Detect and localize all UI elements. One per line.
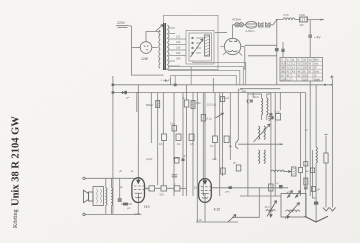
label 432 [214, 208, 221, 212]
cap near x313 [312, 187, 316, 192]
blob x270.9 [269, 113, 272, 116]
variometer arrow through IF2 [254, 124, 271, 142]
plus mark right rail [330, 75, 333, 78]
label under grid line [225, 191, 231, 194]
tube 2 envelope [199, 179, 212, 203]
wire drop x215 [214, 93, 216, 161]
caps right of tube1 [149, 186, 155, 191]
wire drop x163 [162, 93, 164, 186]
box1 frame right edge [232, 188, 259, 218]
arrow at right of line [280, 143, 283, 145]
wire drop x186 with cap 1u [186, 85, 188, 100]
wire drop x157.7 with resistor 50k [157, 93, 159, 186]
label 220V mains [117, 21, 126, 25]
wire choke to resistor [295, 19, 300, 21]
speaker bottom wire [85, 213, 141, 215]
cap on x219.7 [224, 136, 229, 143]
tube 1 grid dashes [134, 186, 144, 190]
label 1u [182, 97, 185, 100]
label J above tube1 [131, 169, 134, 173]
label at bus mid [242, 89, 247, 93]
IF coil pair 2 left [259, 126, 260, 140]
labels [145, 184, 176, 197]
electrolytic cup 1 [259, 22, 264, 27]
squiggle above blob2 [276, 182, 279, 185]
wire into rectifier left [215, 31, 227, 33]
tube 2 heater [202, 197, 208, 198]
output transformer primary [106, 188, 107, 206]
output transformer secondary [112, 188, 113, 206]
wire drop x238 [237, 89, 239, 140]
wire mains to lamp branch [129, 26, 164, 75]
variometer 1 tail blob [269, 214, 273, 218]
label 0.1/1k [275, 111, 280, 114]
speaker terminal bottom [83, 213, 85, 215]
IF coil pair 3 left [259, 150, 260, 164]
wire drop x203 with cap [202, 93, 204, 197]
cap x176 above tubes [175, 158, 180, 164]
blob cap x316.1 [314, 202, 318, 205]
lower bus y196 [240, 195, 281, 197]
tube 1 anode arrow [137, 178, 140, 183]
primary arrow [156, 25, 163, 32]
wire drop x219.7 [219, 93, 221, 197]
cap 0.1 on x203 [201, 115, 206, 122]
field winding zigzag [96, 189, 102, 204]
cap blob x305.7 [304, 187, 308, 190]
transformer primary winding [159, 30, 160, 68]
field choke oval [246, 21, 257, 28]
cap bars on x270.9 [268, 117, 273, 119]
wire x316.1 to chassis [315, 85, 317, 222]
transformer core [164, 23, 166, 70]
mains terminal lines [116, 26, 129, 28]
label uu [233, 162, 236, 165]
tube 1 heater [135, 197, 141, 198]
label AT50A [232, 18, 241, 22]
arrow head right [321, 19, 325, 21]
wire x300 down [300, 93, 302, 197]
tube 2 anode arrow [203, 179, 206, 184]
speaker top wire [85, 177, 135, 179]
squiggle vertical x170.5 [170, 77, 172, 85]
label 1.18 [197, 219, 202, 222]
wire drop x222 [222, 93, 224, 177]
wire drop x141 tube1 anode [137, 85, 139, 178]
label 10 left tube2 [194, 186, 198, 190]
wire nest from selector to bus [193, 61, 246, 85]
HT series resistor [300, 17, 308, 22]
tube 1 cathode [135, 193, 143, 202]
coil stack x316 [316, 147, 317, 163]
transformer enclosure box [164, 16, 219, 70]
label a below plus [126, 96, 131, 100]
wire x283 to table [282, 42, 284, 58]
variometer 1 arrow [267, 201, 277, 217]
dial lamp 12W [140, 42, 152, 54]
label above bus [167, 79, 171, 83]
rectifier pin right [239, 47, 245, 56]
table micro text [281, 60, 320, 82]
rectifier top lead [233, 25, 235, 39]
cap row tub 1 [162, 134, 167, 141]
resistor above y196 [269, 184, 274, 191]
label 0.05 [284, 13, 290, 17]
junction dot upper bus x325 [324, 84, 326, 86]
tap voltage labels [176, 35, 181, 61]
caps right of detector [299, 168, 303, 173]
cap near x222 up [220, 97, 224, 102]
wire blob [121, 203, 132, 205]
cap x222 low [221, 168, 226, 174]
IF coil pair 2 right [264, 126, 265, 140]
label 1k [196, 102, 201, 105]
wire x312.5 [313, 150, 317, 198]
tone coil [286, 210, 300, 212]
blob on grid line [229, 186, 232, 189]
wire resistor to arrow [308, 19, 325, 21]
cap on x312.5 [311, 168, 315, 173]
cap x238 low [236, 165, 241, 171]
speaker magnet block [89, 192, 94, 201]
cap 1u [184, 100, 189, 107]
switch contact 1 [288, 195, 290, 197]
label [170, 123, 175, 126]
squiggle label [160, 78, 165, 82]
cap blob 2 [308, 35, 312, 38]
vertical x119.7 with cap [119, 178, 121, 198]
wire drop x183 [182, 93, 184, 197]
connector blade [236, 140, 239, 149]
horizontal line through IF to arrow [238, 143, 283, 145]
wire drop x197 [196, 93, 198, 223]
junction dot rail main [112, 91, 115, 93]
resistor 50k [156, 101, 160, 108]
wire tube1 to caps [145, 187, 187, 189]
tube 2 cathode [201, 194, 209, 203]
variometer coil 1 [266, 210, 276, 211]
speaker terminal top [83, 177, 85, 179]
voltage table [280, 58, 323, 82]
trimmer C top [247, 99, 249, 104]
junction [138, 92, 140, 94]
arrow mid (AVC) [216, 113, 224, 118]
tube2 bottom lead + bus [196, 202, 238, 222]
label Y13 [144, 205, 150, 209]
label top left IF [240, 87, 244, 91]
wire nest 3 [168, 71, 240, 85]
vertical x113 chassis rail [112, 76, 114, 214]
wire x275.2 [274, 93, 276, 197]
wire drop x151.3 [150, 93, 152, 144]
label uF small [183, 155, 186, 158]
rectifier pin left [220, 47, 226, 56]
label 50k [146, 103, 153, 107]
bottom right tone box [281, 194, 306, 218]
bus line main left [113, 92, 306, 94]
label uF top [119, 170, 122, 173]
blob x283 [281, 49, 284, 52]
plus tick left of bus [164, 79, 167, 82]
right tall rail [332, 79, 334, 208]
cap blob [275, 48, 279, 51]
bus end junction dot [331, 84, 333, 86]
wire nest 4 [170, 76, 236, 85]
small arrow near IF [269, 117, 274, 121]
label uF [286, 192, 291, 195]
title text Körting Unix 38 R 2104 GW [11, 116, 22, 228]
IF transformer top frame line [247, 93, 249, 197]
IF coil pair 1 right [267, 98, 268, 115]
wire IF right verticals [270, 93, 272, 216]
wire rectifier right drop [244, 47, 246, 71]
wide chassis V [305, 216, 328, 222]
switch wires to contacts [196, 38, 205, 53]
tube 2 grid dashes [201, 187, 211, 191]
label A-500 [246, 29, 256, 33]
wire lamp right to primary [152, 47, 158, 49]
bottom-right coil horizontal [271, 170, 285, 172]
cap mid x174 [173, 93, 175, 197]
wire drop x211 tube2 anode [204, 93, 206, 179]
wire lamp left [132, 47, 141, 49]
fuse circle 2 [239, 23, 243, 27]
bus line right mid [240, 88, 280, 90]
HF choke on HT line [283, 18, 295, 20]
wire drop x136.8 [136, 93, 138, 113]
junction blob bus [174, 83, 177, 86]
tub x278 [276, 114, 281, 121]
label 5mk [254, 96, 259, 99]
wire to HT junction [270, 20, 283, 25]
labels under caps row [146, 142, 232, 161]
selector arm [191, 39, 204, 57]
cap bars on x174 [172, 175, 177, 177]
blob x182 [182, 159, 185, 162]
dropper cap branch [276, 20, 278, 85]
arrow terminal x326 [323, 208, 329, 212]
wire nest 2 [168, 67, 243, 85]
wire drop x193 with resistor [192, 93, 194, 197]
wire fuse to choke [243, 24, 245, 26]
vertical link w4 to bus [174, 76, 176, 85]
label um [127, 207, 131, 210]
IF wire x253.2 [252, 93, 254, 99]
mains switch arrow bottom [228, 215, 236, 223]
cap branch after resistor [309, 20, 311, 196]
wire drop x230 [229, 93, 231, 161]
wire x326 [325, 136, 327, 208]
tone arrow [285, 203, 300, 219]
tap wires [169, 28, 186, 66]
wire drop x213.3 [212, 78, 214, 93]
speaker cone [83, 190, 88, 202]
speaker field box [93, 187, 104, 206]
blob 2 on grid line [279, 185, 283, 188]
arrow terminal x332.5 [329, 208, 335, 212]
wire x280.3 [279, 93, 281, 111]
junction dot rail upper [112, 84, 115, 86]
label +B [314, 36, 321, 40]
cap blob left of tube1 [123, 203, 128, 206]
dropping resistor (hatched) [205, 35, 210, 56]
cap row tub 4 [213, 136, 218, 143]
IF1 connecting wires [248, 94, 271, 120]
rectifier anode marks [230, 40, 238, 42]
detector box [292, 167, 297, 176]
wire second link [248, 55, 277, 57]
IF coil pair 1 left [262, 98, 263, 115]
junction blob main bus [124, 91, 127, 94]
junction dot [276, 19, 277, 20]
cap row tub 3 [189, 134, 194, 141]
plus mark on main bus [121, 91, 124, 94]
arrow into detector [284, 171, 292, 173]
label J right [305, 128, 309, 132]
fuse circle 1 [235, 23, 239, 27]
selector contacts [192, 37, 193, 38]
transformer secondary winding with taps [168, 25, 170, 69]
trimmer cap mark [250, 100, 254, 103]
wire nest corner [190, 66, 192, 84]
cap on x326 [324, 153, 328, 163]
wire rectifier to dropper [245, 44, 277, 46]
electrolytic cup 2 [266, 22, 271, 27]
cap on x305.7 [304, 162, 308, 167]
transformer wires [106, 178, 112, 214]
switch contact 2 [296, 195, 298, 197]
cap row tub 2 [176, 134, 181, 141]
label 0.007 [120, 186, 141, 216]
cap 0.1 on x174 [172, 126, 177, 132]
switch sub-box outer [186, 31, 214, 65]
rectifier cathode arcs [228, 51, 238, 52]
switch sub-box inner [189, 33, 212, 61]
label [207, 118, 212, 121]
wire x305.7 [305, 93, 307, 217]
grid line horizontal [212, 187, 289, 189]
resistor on x305.7 [304, 178, 308, 185]
tick top x326 [325, 134, 328, 136]
IF coil pair 3 right [264, 150, 265, 164]
resistor on x193 [191, 101, 195, 109]
label 3,3 [265, 206, 270, 209]
rectifier tube [224, 38, 240, 54]
label J01 [222, 97, 229, 100]
label row under bus [206, 104, 217, 107]
bus line upper full [113, 84, 332, 86]
wire lamp loop top [146, 32, 161, 42]
tube1 bottom lead [137, 203, 139, 215]
tone arrow tail blob [287, 216, 290, 220]
tube 1 envelope [132, 178, 145, 203]
